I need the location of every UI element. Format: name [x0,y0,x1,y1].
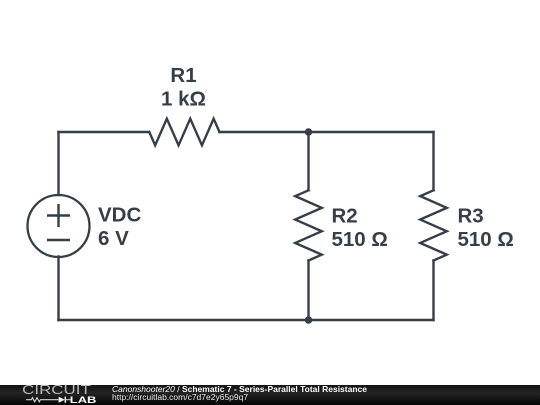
R2 label [332,205,358,228]
svg-text:1 kΩ: 1 kΩ [161,88,206,111]
svg-text:R3: R3 [458,205,484,228]
R1 value 1 kOhm [161,88,206,111]
R2 value 510 Ohm [332,228,388,251]
svg-text:R2: R2 [332,205,358,228]
wire bottom-left [59,319,309,321]
logo wire to LAB [66,399,71,401]
resistor R3 [420,190,447,260]
wire left-upper [57,132,59,195]
svg-text:510 Ω: 510 Ω [332,228,388,251]
wire top-middle [220,131,309,133]
voltage source plus sign [48,205,69,226]
R3 value 510 Ohm [458,228,514,251]
footer attribution line [112,384,367,394]
V1 value label 6 V [98,227,129,250]
wire right-lower [432,261,434,321]
wire bottom-right [309,319,434,321]
node junction bottom [305,316,313,324]
wire middle-lower [307,261,309,321]
svg-text:VDC: VDC [98,204,141,227]
svg-text:R1: R1 [170,64,196,87]
CircuitLab logo [20,384,110,405]
wire middle-upper [307,132,309,190]
V1 name label VDC [98,204,141,227]
logo diode [59,397,66,403]
svg-text:LAB: LAB [70,395,97,405]
logo resistor squiggle [26,398,58,402]
node junction top [305,128,313,136]
resistor R2 [295,190,322,260]
voltage source V1 circle [28,195,90,257]
R1 label [170,64,196,87]
footer bar [0,385,540,405]
R3 label [458,205,484,228]
footer url line [112,392,248,402]
svg-text:510 Ω: 510 Ω [458,228,514,251]
resistor R1 [149,119,219,146]
wire top-left [59,131,150,133]
voltage source minus sign [48,239,69,241]
wire left-lower [57,257,59,321]
svg-text:6 V: 6 V [98,227,129,250]
wire top-right [309,131,434,133]
wire right-upper [432,132,434,190]
